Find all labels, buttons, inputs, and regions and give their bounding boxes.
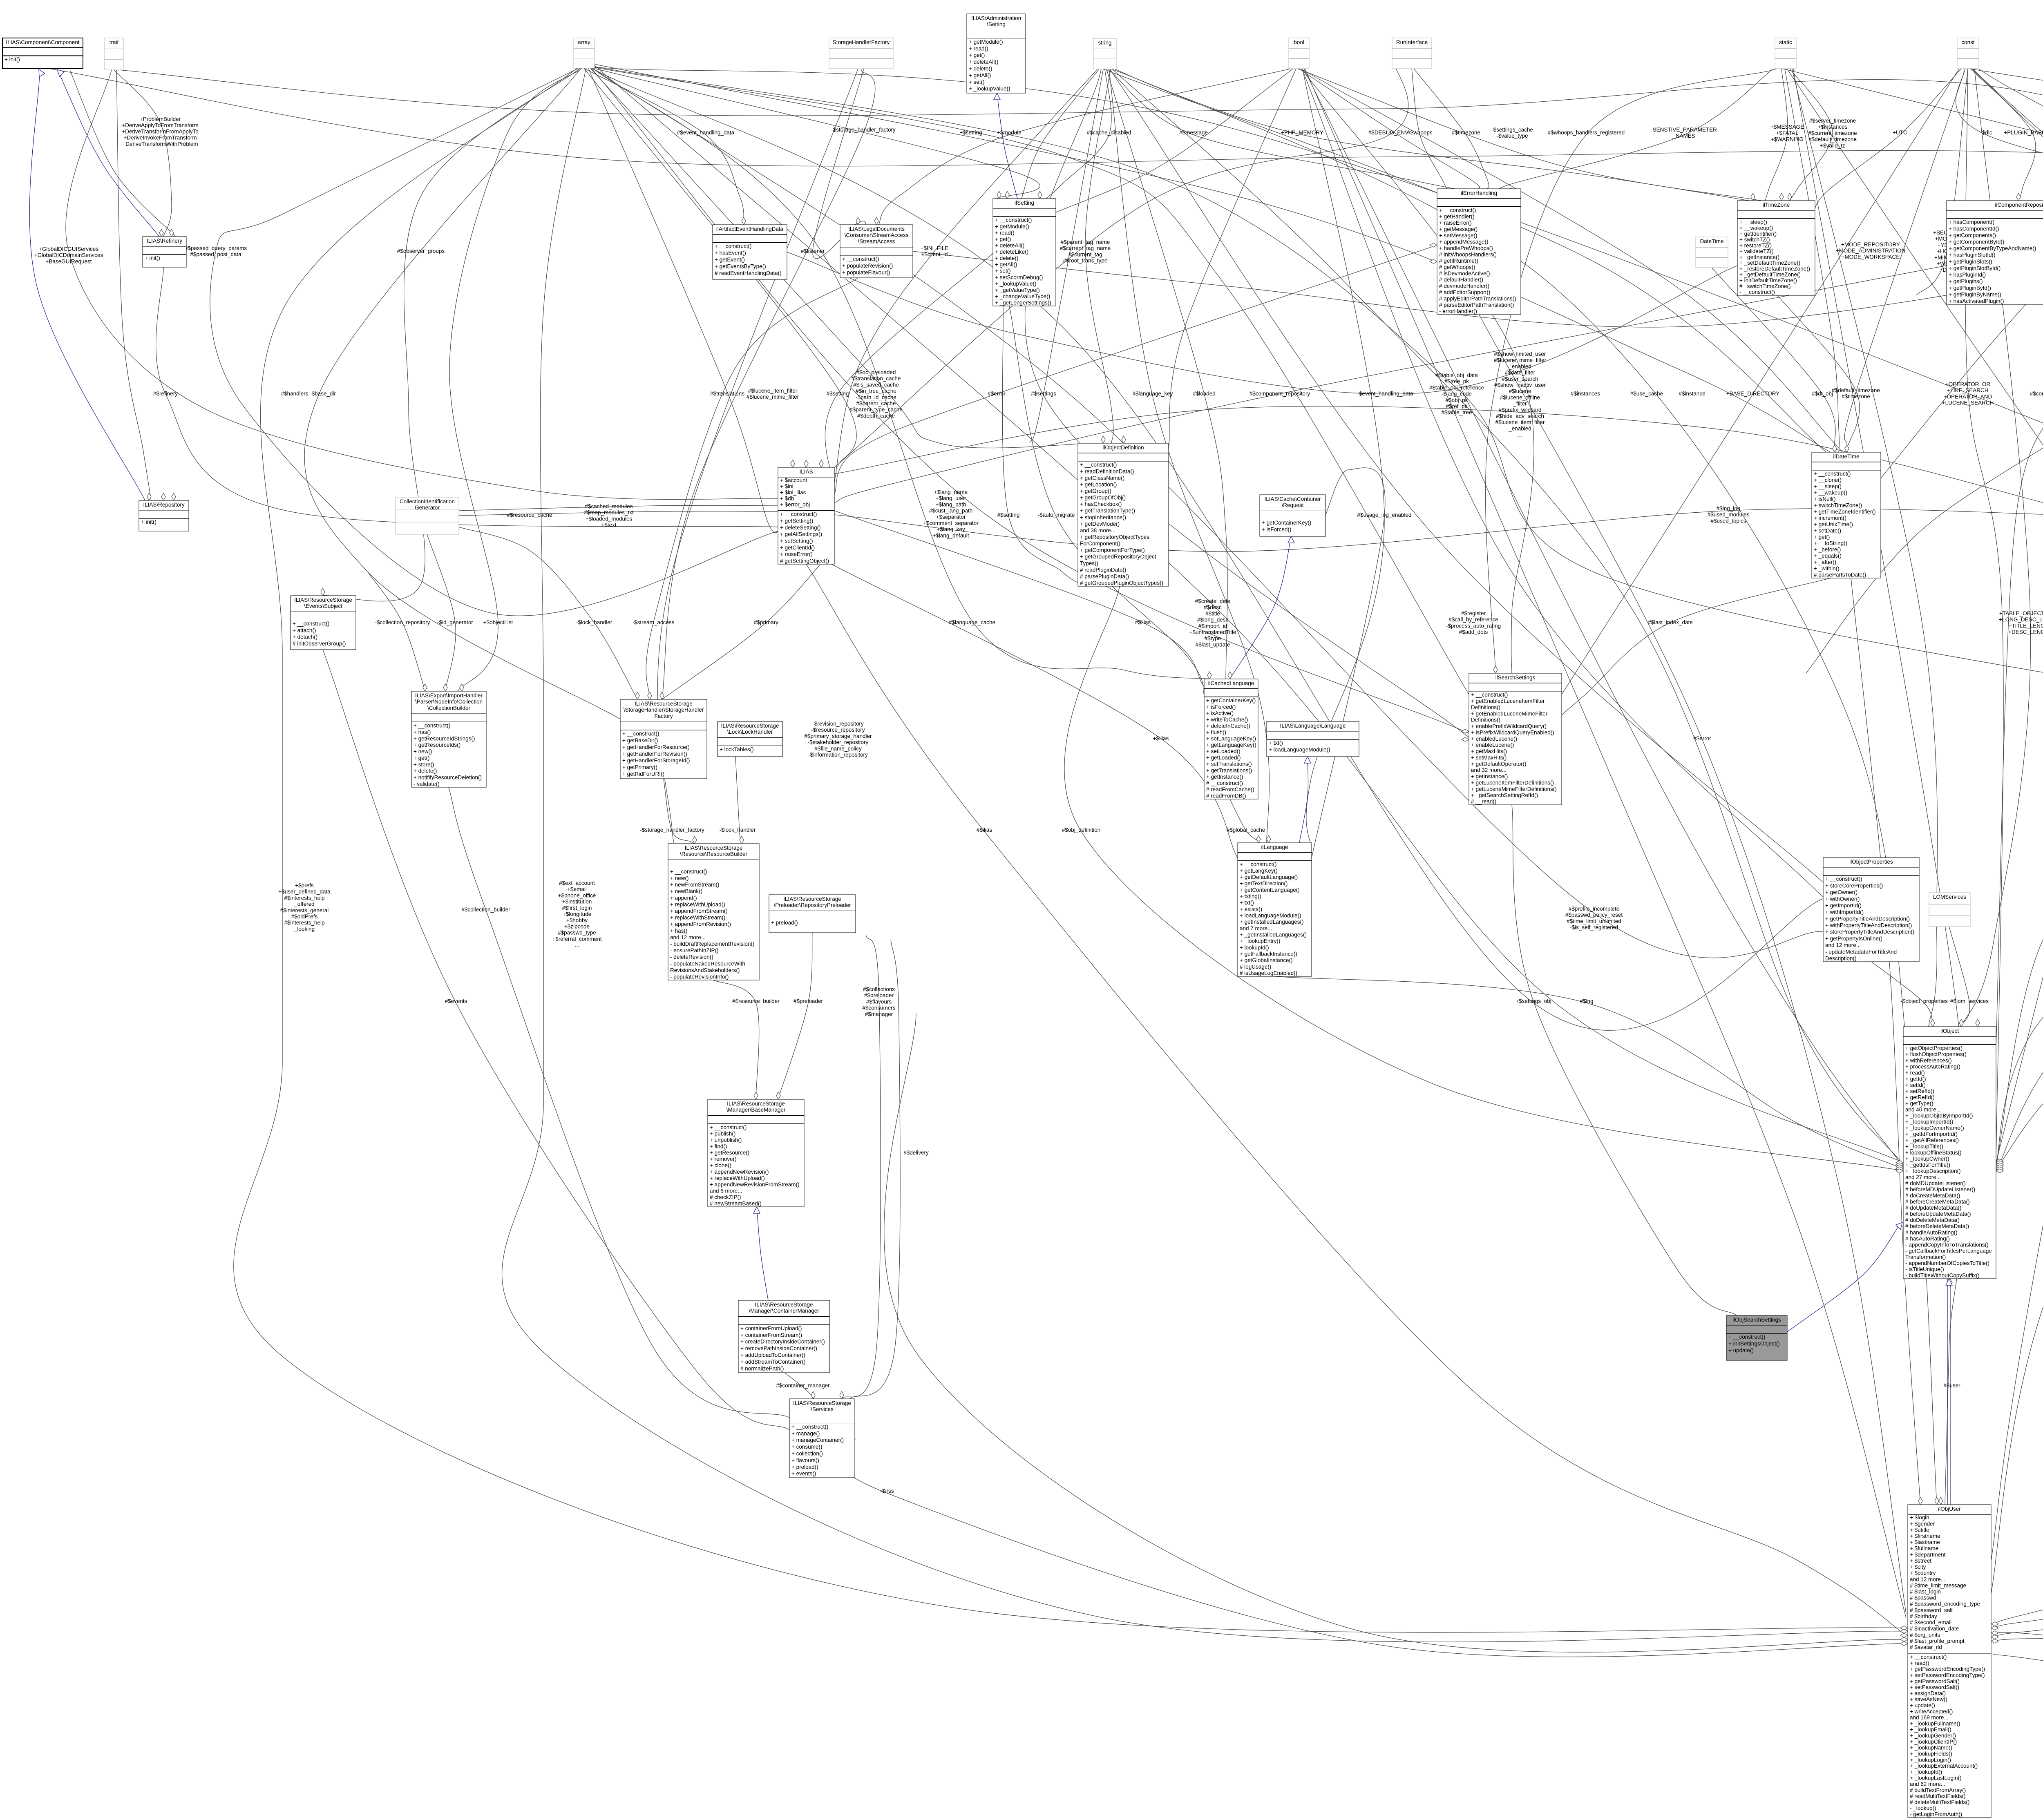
- svg-text:+ hasPluginSlotId(): + hasPluginSlotId(): [1949, 252, 1995, 258]
- svg-text:+ isForced(): + isForced(): [1206, 704, 1236, 710]
- svg-text:+ __construct(): + __construct(): [715, 243, 751, 249]
- svg-text:# addEditorSupport(): # addEditorSupport(): [1439, 289, 1490, 295]
- svg-text:array: array: [578, 39, 590, 45]
- svg-text:#$is_saved_cache: #$is_saved_cache: [853, 382, 899, 388]
- svg-text:\Preloader\RepositoryPreloader: \Preloader\RepositoryPreloader: [773, 902, 851, 908]
- svg-text:+ $error_obj: + $error_obj: [780, 501, 810, 507]
- svg-text:# $second_email: # $second_email: [1910, 1619, 1951, 1626]
- svg-text:#$table_tree: #$table_tree: [1441, 409, 1472, 415]
- svg-text:#$tree_pk: #$tree_pk: [1444, 378, 1469, 384]
- svg-text:+ setLoaded(): + setLoaded(): [1206, 748, 1241, 755]
- svg-text:-$dic: -$dic: [1980, 130, 1992, 136]
- svg-text:+ clone(): + clone(): [710, 1162, 731, 1168]
- svg-text:+ setSetting(): + setSetting(): [780, 538, 813, 544]
- svg-text:+ _lookupClientIP(): + _lookupClientIP(): [1910, 1739, 1957, 1745]
- svg-text:+ delete(): + delete(): [995, 255, 1018, 261]
- svg-text:# readFromCache(): # readFromCache(): [1206, 786, 1254, 793]
- svg-text:+ _getSearchSettingRefId(): + _getSearchSettingRefId(): [1471, 792, 1538, 798]
- svg-text:+ __sleep(): + __sleep(): [1814, 483, 1842, 489]
- svg-text:#$cache_disabled: #$cache_disabled: [1087, 130, 1131, 136]
- svg-text:+ restoreTZ(): + restoreTZ(): [1739, 242, 1772, 248]
- svg-text:Description(): Description(): [1825, 956, 1857, 962]
- svg-text:\StorageHandler\StorageHandler: \StorageHandler\StorageHandler: [624, 707, 704, 713]
- svg-text:# doDeleteMetaData(): # doDeleteMetaData(): [1905, 1217, 1960, 1223]
- svg-text:+ getLocation(): + getLocation(): [1080, 481, 1117, 487]
- svg-text:+ publish(): + publish(): [710, 1131, 735, 1137]
- svg-text:+ getGroup(): + getGroup(): [1080, 488, 1111, 494]
- svg-text:+ loadLanguageModule(): + loadLanguageModule(): [1240, 913, 1301, 919]
- svg-text:ForComponent(): ForComponent(): [1080, 540, 1120, 547]
- svg-text:+ isActive(): + isActive(): [1206, 710, 1234, 716]
- svg-text:+ assignData(): + assignData(): [1910, 1690, 1946, 1696]
- svg-text:#$desc: #$desc: [1204, 604, 1222, 610]
- svg-text:#$hide_adv_search: #$hide_adv_search: [1496, 413, 1544, 419]
- svg-text:+ getContainerKey(): + getContainerKey(): [1206, 697, 1256, 703]
- svg-text:#$show_limited_user: #$show_limited_user: [1494, 351, 1546, 357]
- svg-text:+ writeAccepted(): + writeAccepted(): [1910, 1708, 1953, 1715]
- svg-text:+ getSetting(): + getSetting(): [780, 518, 813, 524]
- svg-text:...: ...: [574, 942, 579, 948]
- svg-text:+ update(): + update(): [1728, 1347, 1754, 1353]
- svg-text:#$ext_account: #$ext_account: [559, 880, 595, 886]
- svg-text:+ getPluginById(): + getPluginById(): [1949, 285, 1991, 291]
- svg-text:+ getPluginSlotById(): + getPluginSlotById(): [1949, 265, 2001, 271]
- svg-text:+ setMessage(): + setMessage(): [1439, 232, 1477, 239]
- svg-text:+ hasComponent(): + hasComponent(): [1949, 219, 1994, 225]
- svg-text:#$add_dots: #$add_dots: [1459, 629, 1488, 635]
- svg-text:\Events\Subject: \Events\Subject: [304, 603, 342, 609]
- svg-text:+$zipcode: +$zipcode: [564, 923, 590, 929]
- svg-text:static: static: [1779, 39, 1792, 45]
- svg-text:_enabled: _enabled: [1508, 363, 1531, 369]
- svg-text:+ appendNewRevisionFromStream(: + appendNewRevisionFromStream(): [710, 1181, 799, 1188]
- svg-text:+ _lookupEmail(): + _lookupEmail(): [1910, 1726, 1951, 1733]
- svg-text:+ _within(): + _within(): [1814, 565, 1840, 572]
- svg-text:RevisionsAndStakeholders(): RevisionsAndStakeholders(): [670, 967, 740, 973]
- svg-text:and 40 more...: and 40 more...: [1905, 1107, 1941, 1113]
- svg-text:+ deleteAll(): + deleteAll(): [969, 59, 998, 65]
- svg-text:+ __construct(): + __construct(): [293, 621, 329, 627]
- svg-text:+ switchTimeZone(): + switchTimeZone(): [1814, 502, 1862, 509]
- svg-text:#$instance: #$instance: [1679, 391, 1705, 397]
- svg-text:+ getPlugins(): + getPlugins(): [1949, 278, 1983, 284]
- svg-text:- __construct(): - __construct(): [1739, 289, 1775, 295]
- svg-text:#$timezone: #$timezone: [1452, 130, 1480, 136]
- svg-text:-$storage_handler_factory: -$storage_handler_factory: [640, 827, 704, 833]
- svg-text:+$email: +$email: [567, 886, 587, 892]
- svg-text:#$passed_query_params: #$passed_query_params: [185, 245, 247, 251]
- svg-text:#$use_cache: #$use_cache: [1630, 391, 1663, 397]
- svg-text:_enabled: _enabled: [1508, 425, 1531, 431]
- svg-text:+ __construct(): + __construct(): [995, 217, 1032, 223]
- svg-text:+$longitude: +$longitude: [563, 911, 591, 917]
- svg-text:+ getContentLanguage(): + getContentLanguage(): [1240, 887, 1300, 893]
- svg-text:-$id_generator: -$id_generator: [437, 619, 473, 625]
- svg-text:- updateMetadataForTitleAnd: - updateMetadataForTitleAnd: [1825, 949, 1897, 955]
- svg-text:- populateNakedResourceWith: - populateNakedResourceWith: [670, 960, 745, 967]
- svg-text:#$resource_builder: #$resource_builder: [732, 998, 780, 1004]
- svg-text:+ __construct(): + __construct(): [710, 1124, 747, 1130]
- svg-text:+ _lookupValue(): + _lookupValue(): [969, 86, 1010, 92]
- svg-text:#$server_timezone: #$server_timezone: [1809, 118, 1856, 124]
- svg-text:+ $login: + $login: [1910, 1514, 1929, 1521]
- svg-text:+$separator: +$separator: [936, 514, 966, 520]
- svg-text:+ read(): + read(): [995, 230, 1015, 236]
- svg-text:+$lang_path: +$lang_path: [936, 501, 966, 507]
- svg-text:+ getPrimary(): + getPrimary(): [622, 764, 657, 770]
- svg-text:# _switchTimeZone(): # _switchTimeZone(): [1739, 283, 1791, 289]
- svg-text:+ handlePreWhoops(): + handlePreWhoops(): [1439, 245, 1493, 251]
- svg-text:#$passwd_policy_reset: #$passwd_policy_reset: [1565, 912, 1623, 918]
- svg-text:- buildTitleWithoutCopySuffix(: - buildTitleWithoutCopySuffix(): [1905, 1273, 1980, 1279]
- svg-text:# checkZIP(): # checkZIP(): [710, 1194, 741, 1200]
- svg-text:+ _lookupExternalAccount(): + _lookupExternalAccount(): [1910, 1763, 1978, 1769]
- svg-text:+$INI_FILE: +$INI_FILE: [921, 245, 949, 251]
- svg-text:# parsePluginData(): # parsePluginData(): [1080, 573, 1129, 579]
- svg-text:#$settings: #$settings: [1031, 391, 1056, 397]
- svg-text:#$lucene_offline: #$lucene_offline: [1500, 394, 1540, 400]
- svg-text:#$create_date: #$create_date: [1195, 598, 1230, 604]
- svg-text:#$title: #$title: [1205, 610, 1220, 616]
- svg-text:+ _lookupDescription(): + _lookupDescription(): [1905, 1168, 1960, 1174]
- svg-text:+ getRidForURI(): + getRidForURI(): [622, 771, 664, 777]
- svg-text:+ getMessage(): + getMessage(): [1439, 226, 1477, 232]
- svg-text:- populateRevisionInfo(): - populateRevisionInfo(): [670, 974, 729, 980]
- svg-text:+ getPasswordSalt(): + getPasswordSalt(): [1910, 1678, 1960, 1684]
- svg-text:ILIAS\Component\Component: ILIAS\Component\Component: [6, 39, 79, 45]
- svg-text:+ _getInstalledLanguages(): + _getInstalledLanguages(): [1240, 932, 1307, 938]
- svg-text:+ saveAsNew(): + saveAsNew(): [1910, 1696, 1947, 1702]
- svg-text:#$events: #$events: [445, 998, 467, 1004]
- svg-text:#$global_cache: #$global_cache: [1227, 827, 1265, 833]
- svg-text:Factory: Factory: [654, 713, 673, 719]
- svg-text:+ getInstance(): + getInstance(): [1206, 774, 1243, 780]
- svg-text:StorageHandlerFactory: StorageHandlerFactory: [833, 39, 890, 45]
- svg-text:+ withOwner(): + withOwner(): [1825, 896, 1860, 902]
- svg-text:#$long_desc: #$long_desc: [1197, 617, 1229, 623]
- svg-text:+ txt(): + txt(): [1269, 740, 1283, 746]
- svg-text:const: const: [1961, 39, 1975, 45]
- svg-text:+$lang_default: +$lang_default: [933, 532, 969, 538]
- svg-text:+ getInstance(): + getInstance(): [1471, 773, 1508, 779]
- svg-text:+ getImportId(): + getImportId(): [1825, 902, 1862, 909]
- svg-text:ilErrorHandling: ilErrorHandling: [1461, 190, 1497, 196]
- svg-text:#$used_topics: #$used_topics: [1710, 518, 1746, 524]
- svg-text:trait: trait: [110, 39, 119, 45]
- svg-text:\Setting: \Setting: [987, 21, 1006, 27]
- svg-text:+ _lookupFields(): + _lookupFields(): [1910, 1751, 1952, 1757]
- svg-text:#$interests_help: #$interests_help: [284, 895, 324, 901]
- svg-text:# $inactivation_date: # $inactivation_date: [1910, 1626, 1959, 1632]
- svg-text:...: ...: [1518, 432, 1522, 438]
- svg-text:+ _getAllReferences(): + _getAllReferences(): [1905, 1137, 1959, 1143]
- svg-text:-$lock_handler: -$lock_handler: [720, 827, 756, 833]
- svg-text:+ validateTZ(): + validateTZ(): [1739, 248, 1774, 255]
- svg-text:#$usage_log_enabled: #$usage_log_enabled: [1357, 512, 1412, 518]
- svg-text:+ stopInheritance(): + stopInheritance(): [1080, 514, 1126, 520]
- svg-text:#$error: #$error: [1693, 735, 1711, 741]
- svg-text:#$ref_pk: #$ref_pk: [1446, 403, 1468, 409]
- svg-text:#$oldPrefs: #$oldPrefs: [291, 913, 318, 920]
- svg-text:+OPERATOR_AND: +OPERATOR_AND: [1944, 393, 1992, 400]
- svg-text:+ replaceWithStream(): + replaceWithStream(): [670, 915, 725, 921]
- svg-text:+ read(): + read(): [1910, 1660, 1929, 1666]
- svg-text:+ getComponentForType(): + getComponentForType(): [1080, 547, 1145, 553]
- svg-text:#$user: #$user: [1943, 1382, 1960, 1389]
- svg-text:+ isNull(): + isNull(): [1814, 496, 1836, 502]
- svg-text:+ withPropertyTitleAndDescript: + withPropertyTitleAndDescription(): [1825, 922, 1912, 929]
- svg-text:#$date_filter: #$date_filter: [1505, 370, 1536, 376]
- svg-text:+ writeToCache(): + writeToCache(): [1206, 717, 1248, 723]
- svg-text:+ get(): + get(): [995, 236, 1011, 242]
- svg-text:+ getLoaded(): + getLoaded(): [1206, 755, 1241, 761]
- svg-text:#$delivery: #$delivery: [903, 1150, 929, 1156]
- svg-text:bool: bool: [1294, 39, 1304, 45]
- svg-text:+ getGlobalInstance(): + getGlobalInstance(): [1240, 957, 1292, 963]
- svg-text:#$flavours: #$flavours: [866, 998, 892, 1005]
- svg-text:#$first_login: #$first_login: [562, 905, 592, 911]
- svg-text:#$instances: #$instances: [1571, 391, 1600, 397]
- svg-text:#$parent_cache: #$parent_cache: [856, 400, 896, 406]
- svg-text:+ getRepositoryObjectTypes: + getRepositoryObjectTypes: [1080, 534, 1149, 540]
- svg-text:+ __construct(): + __construct(): [1439, 207, 1476, 213]
- svg-text:+OPERATOR_OR: +OPERATOR_OR: [1945, 381, 1990, 387]
- svg-text:#$dt_obj: #$dt_obj: [1812, 391, 1833, 397]
- svg-text:+ preload(): + preload(): [771, 920, 798, 926]
- svg-text:#$collections: #$collections: [863, 986, 895, 992]
- svg-text:-$lock_handler: -$lock_handler: [576, 619, 612, 625]
- svg-text:+ increment(): + increment(): [1814, 515, 1846, 521]
- svg-text:+ collection(): + collection(): [791, 1451, 823, 1457]
- svg-text:+ getEvent(): + getEvent(): [715, 257, 745, 263]
- svg-text:#$root_trans_type: #$root_trans_type: [1063, 258, 1108, 264]
- svg-text:+ unpublish(): + unpublish(): [710, 1137, 742, 1143]
- svg-text:# doCreateMetaData(): # doCreateMetaData(): [1905, 1192, 1960, 1199]
- svg-text:_looking: _looking: [294, 926, 315, 932]
- svg-text:+$MESSAGE: +$MESSAGE: [1770, 124, 1804, 130]
- svg-text:+ getResource(): + getResource(): [710, 1150, 749, 1156]
- svg-text:+ readDefinitionData(): + readDefinitionData(): [1080, 468, 1134, 474]
- svg-text:+ detach(): + detach(): [293, 634, 317, 640]
- svg-text:+ getGroupOfObj(): + getGroupOfObj(): [1080, 495, 1126, 501]
- svg-text:+ getAll(): + getAll(): [969, 72, 991, 78]
- svg-text:# $avatar_rid: # $avatar_rid: [1910, 1644, 1942, 1650]
- svg-text:#$listener: #$listener: [801, 248, 825, 254]
- svg-text:+ getTranslationType(): + getTranslationType(): [1080, 508, 1135, 514]
- svg-text:# buildTextFromArray(): # buildTextFromArray(): [1910, 1787, 1966, 1793]
- svg-text:and 7 more...: and 7 more...: [1240, 925, 1272, 931]
- svg-text:+ setRefId(): + setRefId(): [1905, 1088, 1934, 1094]
- svg-text:+ deleteLike(): + deleteLike(): [995, 249, 1028, 255]
- svg-text:+ $firstname: + $firstname: [1910, 1533, 1940, 1539]
- svg-text:ILIAS\Language\Language: ILIAS\Language\Language: [1280, 723, 1346, 729]
- svg-text:+ getResourceIdStrings(): + getResourceIdStrings(): [414, 735, 475, 741]
- svg-text:+ getTranslations(): + getTranslations(): [1206, 767, 1252, 773]
- svg-text:ILIAS\Administration: ILIAS\Administration: [971, 15, 1021, 21]
- svg-text:+ enablePrefixWildcardQuery(): + enablePrefixWildcardQuery(): [1471, 723, 1547, 729]
- svg-text:+ __construct(): + __construct(): [1240, 861, 1276, 867]
- svg-text:+ _changeValueType(): + _changeValueType(): [995, 293, 1050, 299]
- svg-text:# $org_units: # $org_units: [1910, 1632, 1940, 1638]
- svg-text:# readFromDB(): # readFromDB(): [1206, 793, 1246, 799]
- svg-text:+ _lookupOwnerName(): + _lookupOwnerName(): [1905, 1125, 1964, 1131]
- svg-text:ILIAS\ResourceStorage: ILIAS\ResourceStorage: [685, 845, 743, 851]
- svg-text:#$table_obj_reference: #$table_obj_reference: [1429, 384, 1484, 391]
- svg-text:+ $db: + $db: [780, 496, 794, 502]
- svg-text:+ txt(): + txt(): [1240, 900, 1254, 906]
- svg-text:#$lucene_mime_filter: #$lucene_mime_filter: [1494, 357, 1547, 363]
- svg-text:and 12 more...: and 12 more...: [670, 934, 706, 940]
- svg-text:#$default_timezone: #$default_timezone: [1808, 136, 1857, 143]
- svg-text:+ $ini: + $ini: [780, 483, 794, 489]
- svg-text:# handleAutoRating(): # handleAutoRating(): [1905, 1229, 1958, 1235]
- svg-text:+ __construct(): + __construct(): [1910, 1654, 1947, 1660]
- svg-text:# beforeMDUpdateListener(): # beforeMDUpdateListener(): [1905, 1186, 1975, 1192]
- svg-text:+ getContainerKey(): + getContainerKey(): [1262, 520, 1311, 526]
- svg-text:+ replaceWithUpload(): + replaceWithUpload(): [710, 1175, 765, 1181]
- svg-text:+$untranslatedTitle: +$untranslatedTitle: [1189, 629, 1236, 635]
- svg-text:+ _restoreDefaultTimeZone(): + _restoreDefaultTimeZone(): [1739, 266, 1810, 272]
- svg-text:+ exists(): + exists(): [1240, 906, 1262, 912]
- svg-text:+ raiseError(): + raiseError(): [1439, 220, 1472, 226]
- svg-text:+ $street: + $street: [1910, 1558, 1931, 1564]
- svg-text:ilObjectDefinition: ilObjectDefinition: [1102, 444, 1144, 451]
- svg-text:+ getUnixTime(): + getUnixTime(): [1814, 521, 1853, 527]
- svg-text:# doUpdateMetaData(): # doUpdateMetaData(): [1905, 1205, 1961, 1211]
- svg-text:#$translation_cache: #$translation_cache: [852, 375, 901, 382]
- svg-text:ilObjectProperties: ilObjectProperties: [1849, 859, 1893, 865]
- svg-text:+$lang_user: +$lang_user: [936, 495, 966, 501]
- svg-text:ILIAS\ResourceStorage: ILIAS\ResourceStorage: [783, 896, 841, 902]
- svg-text:+ hasCheckbox(): + hasCheckbox(): [1080, 501, 1122, 507]
- svg-text:+ _lookupImportId(): + _lookupImportId(): [1905, 1119, 1953, 1125]
- svg-text:+ preload(): + preload(): [791, 1464, 818, 1470]
- svg-text:+ $lastname: + $lastname: [1910, 1539, 1940, 1545]
- svg-text:#$error: #$error: [988, 391, 1006, 397]
- svg-text:+ get(): + get(): [414, 755, 429, 761]
- svg-text:+ appendFromStream(): + appendFromStream(): [670, 908, 728, 914]
- svg-text:+ isPrefixWildcardQueryEnabled: + isPrefixWildcardQueryEnabled(): [1471, 729, 1554, 735]
- svg-text:+ flavours(): + flavours(): [791, 1457, 819, 1463]
- svg-text:+ find(): + find(): [710, 1143, 727, 1150]
- svg-text:+ _lookupGender(): + _lookupGender(): [1910, 1733, 1956, 1739]
- svg-text:+ init(): + init(): [141, 519, 156, 525]
- svg-text:#$whoops: #$whoops: [1407, 130, 1433, 136]
- svg-text:#$translations: #$translations: [710, 391, 744, 397]
- svg-text:#$preloader: #$preloader: [794, 998, 823, 1004]
- svg-text:+ read(): + read(): [1905, 1070, 1925, 1076]
- svg-text:#$lucene: #$lucene: [1509, 388, 1531, 394]
- svg-text:+$prefs: +$prefs: [295, 882, 314, 889]
- svg-text:+ _getValueType(): + _getValueType(): [995, 287, 1040, 293]
- svg-text:#$type: #$type: [1205, 635, 1221, 641]
- svg-text:+$loaded_modules: +$loaded_modules: [586, 516, 633, 522]
- svg-text:ILIAS\Export\ImportHandler: ILIAS\Export\ImportHandler: [415, 692, 483, 699]
- svg-text:# $birthday: # $birthday: [1910, 1613, 1937, 1619]
- svg-text:+ enabledLucene(): + enabledLucene(): [1471, 736, 1517, 742]
- svg-text:ilObjSearchSettings: ilObjSearchSettings: [1732, 1317, 1781, 1323]
- svg-text:+ setId(): + setId(): [1905, 1082, 1926, 1088]
- svg-text:#$collection_builder: #$collection_builder: [461, 907, 510, 913]
- svg-text:+ getClassName(): + getClassName(): [1080, 475, 1124, 481]
- svg-text:+ getResourceIds(): + getResourceIds(): [414, 742, 460, 748]
- svg-text:+$setting: +$setting: [959, 130, 982, 136]
- svg-text:# initObserverGroup(): # initObserverGroup(): [293, 641, 346, 647]
- svg-text:+LUCENE_SEARCH: +LUCENE_SEARCH: [1942, 400, 1994, 406]
- svg-text:#$language_key: #$language_key: [1132, 391, 1173, 397]
- svg-text:# initWhoopsHandlers(): # initWhoopsHandlers(): [1439, 251, 1497, 257]
- svg-text:Transformation(): Transformation(): [1905, 1254, 1946, 1260]
- svg-text:LOMServices: LOMServices: [1933, 894, 1966, 900]
- svg-text:+ deleteInCache(): + deleteInCache(): [1206, 723, 1250, 729]
- svg-text:-$base_dir: -$base_dir: [310, 391, 336, 397]
- svg-text:+ $country: + $country: [1910, 1570, 1936, 1576]
- svg-text:ILIAS\Cache\Container: ILIAS\Cache\Container: [1264, 496, 1321, 502]
- svg-text:+ $department: + $department: [1910, 1552, 1946, 1558]
- svg-text:#$cust_lang_path: #$cust_lang_path: [929, 508, 973, 514]
- svg-text:+ get(): + get(): [1814, 534, 1830, 540]
- svg-text:- ensurePathInZIP(): - ensurePathInZIP(): [670, 947, 719, 954]
- svg-text:+ getHandlerForRevision(): + getHandlerForRevision(): [622, 751, 687, 757]
- svg-text:+ getType(): + getType(): [1905, 1101, 1933, 1107]
- svg-text:#$passed_post_data: #$passed_post_data: [190, 251, 241, 257]
- svg-text:# logUsage(): # logUsage(): [1240, 964, 1271, 970]
- svg-text:and 38 more...: and 38 more...: [1080, 527, 1115, 534]
- svg-text:-$revision_repository: -$revision_repository: [812, 721, 864, 727]
- svg-text:# readPluginData(): # readPluginData(): [1080, 567, 1126, 573]
- svg-text:-$collection_repository: -$collection_repository: [375, 619, 430, 625]
- svg-text:and 12 more...: and 12 more...: [1910, 1576, 1945, 1582]
- svg-text:and 62 more...: and 62 more...: [1910, 1781, 1945, 1787]
- svg-text:ILIAS\ResourceStorage: ILIAS\ResourceStorage: [294, 597, 352, 603]
- svg-text:+$client_id: +$client_id: [921, 251, 948, 257]
- svg-text:+ getHandler(): + getHandler(): [1439, 214, 1475, 220]
- svg-text:+ $utitle: + $utitle: [1910, 1527, 1929, 1533]
- svg-text:+ $city: + $city: [1910, 1564, 1926, 1570]
- svg-text:+ getEventsByType(): + getEventsByType(): [715, 263, 766, 269]
- svg-text:+ _lookupValue(): + _lookupValue(): [995, 281, 1036, 287]
- svg-text:#$consumers: #$consumers: [862, 1005, 895, 1011]
- svg-text:+ manageContainer(): + manageContainer(): [791, 1437, 844, 1443]
- svg-text:_NAMES: _NAMES: [1672, 133, 1695, 139]
- svg-text:+ __construct(): + __construct(): [622, 731, 659, 737]
- svg-text:#$setting: #$setting: [827, 391, 849, 397]
- svg-text:+ __construct(): + __construct(): [1814, 471, 1851, 477]
- svg-text:+ init(): + init(): [4, 56, 20, 63]
- svg-text:\Request: \Request: [1281, 502, 1303, 508]
- svg-text:+ setDate(): + setDate(): [1814, 527, 1841, 534]
- svg-text:#$primary_storage_handler: #$primary_storage_handler: [804, 733, 872, 739]
- svg-text:+ __construct(): + __construct(): [780, 511, 817, 517]
- svg-text:# isUsageLogEnabled(): # isUsageLogEnabled(): [1240, 970, 1297, 976]
- svg-text:Definitions(): Definitions(): [1471, 704, 1500, 710]
- svg-text:+$module: +$module: [997, 130, 1021, 136]
- svg-text:#$lucene_item_filter: #$lucene_item_filter: [748, 388, 798, 394]
- svg-text:+ getBaseDir(): + getBaseDir(): [622, 737, 658, 744]
- svg-text:+ getHandlerForStorageId(): + getHandlerForStorageId(): [622, 757, 690, 764]
- svg-text:ilArtifactEventHandlingData: ilArtifactEventHandlingData: [716, 226, 784, 232]
- svg-text:+ deleteAll(): + deleteAll(): [995, 242, 1024, 248]
- svg-text:#$time_limit_unlimited: #$time_limit_unlimited: [1567, 918, 1621, 924]
- svg-text:+LIKE_SEARCH: +LIKE_SEARCH: [1947, 387, 1989, 393]
- svg-text:+ hasActivatedPlugin(): + hasActivatedPlugin(): [1949, 298, 2004, 304]
- svg-text:+ populateRevision(): + populateRevision(): [842, 263, 893, 269]
- svg-text:+ __sleep(): + __sleep(): [1739, 219, 1767, 225]
- svg-text:-$process_auto_rating: -$process_auto_rating: [1446, 623, 1501, 629]
- svg-text:#$parent_tag_name: #$parent_tag_name: [1061, 239, 1110, 245]
- svg-text:+ delete(): + delete(): [969, 66, 992, 72]
- svg-text:+ getGroupedRepositoryObject: + getGroupedRepositoryObject: [1080, 554, 1156, 560]
